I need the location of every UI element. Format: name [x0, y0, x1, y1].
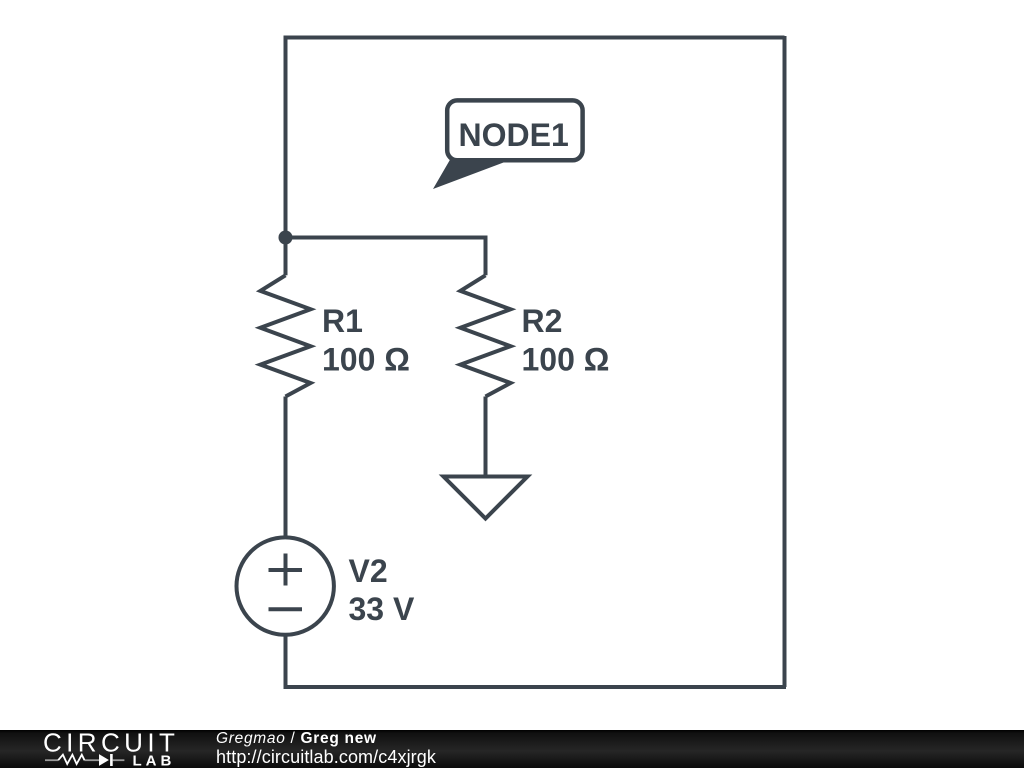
wire right side of loop: [783, 36, 787, 687]
svg-text:R2: R2: [522, 303, 563, 339]
footer bar: [0, 730, 1024, 768]
voltage source V2: [237, 537, 334, 634]
wire left vertical from top corner to node: [284, 38, 288, 238]
wire bottom of loop: [286, 634, 787, 687]
svg-text:100 Ω: 100 Ω: [322, 342, 410, 378]
svg-text:V2: V2: [349, 553, 388, 589]
svg-text:NODE1: NODE1: [459, 117, 569, 153]
svg-text:LAB: LAB: [133, 753, 176, 768]
resistor R1: [260, 275, 310, 396]
svg-text:R1: R1: [322, 303, 363, 339]
V2 plus sign: [269, 554, 303, 586]
node junction dot: [279, 231, 293, 245]
ground: [444, 477, 528, 519]
node NODE1 flag bubble: [447, 100, 582, 160]
node NODE1 flag tail: [433, 158, 504, 189]
svg-text:33 V: 33 V: [349, 591, 415, 627]
V2 minus sign: [269, 607, 303, 611]
resistor R2: [460, 275, 510, 396]
wire node to R1 top: [284, 238, 288, 276]
svg-text:100 Ω: 100 Ω: [522, 342, 610, 378]
wire R2 bottom to ground: [484, 397, 488, 477]
footer author line: [216, 730, 377, 748]
wire node to R2 top: [286, 238, 486, 276]
footer url line: [216, 747, 436, 768]
wire top of loop: [286, 38, 785, 40]
CircuitLab logo: [0, 730, 190, 768]
wire R1 bottom to V2 top: [284, 397, 288, 540]
